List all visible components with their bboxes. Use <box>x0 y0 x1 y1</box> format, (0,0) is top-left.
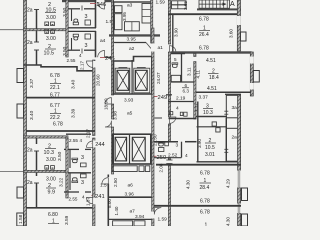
wall top outer <box>62 0 96 2</box>
threshold line corridor y=118 <box>155 117 163 119</box>
svg-text:1: 1 <box>205 223 208 227</box>
svg-text:3.40: 3.40 <box>71 79 77 89</box>
door arc a6 <box>102 178 108 184</box>
red apt number 241 <box>92 195 96 197</box>
svg-text:10.3: 10.3 <box>203 110 213 116</box>
svg-text:3.00: 3.00 <box>46 157 56 163</box>
svg-text:4.30: 4.30 <box>186 180 191 189</box>
svg-text:3.37: 3.37 <box>199 95 209 101</box>
svg-text:3: 3 <box>81 180 84 186</box>
svg-text:4: 4 <box>185 153 188 159</box>
red apt number 246 <box>90 3 96 5</box>
svg-text:3.95: 3.95 <box>127 37 137 43</box>
door tick loggia 3a <box>224 110 228 112</box>
toilet 241 <box>73 178 78 181</box>
svg-text:3.11: 3.11 <box>187 67 192 76</box>
svg-text:6.3: 6.3 <box>183 89 190 94</box>
door arc apt245 <box>86 61 92 67</box>
axis line left to wall <box>0 29 24 31</box>
svg-text:6.78: 6.78 <box>199 46 209 52</box>
door gap apt244 entrance in band <box>92 141 96 148</box>
room 10.5 bottom wall <box>197 161 242 163</box>
staircase hatch <box>199 0 230 8</box>
wall mid divider y=171.3 <box>24 170 69 172</box>
wall corridor west x=93.7 upper part <box>93 60 96 136</box>
washbasin 250 <box>159 148 164 152</box>
svg-text:249: 249 <box>158 95 168 101</box>
elevator block lower enclosure <box>113 134 151 164</box>
window gap right mid 2 <box>250 83 254 90</box>
divider between shafts <box>131 60 133 94</box>
svg-text:4.29: 4.29 <box>226 179 231 188</box>
balcony box 3 <box>17 187 24 198</box>
svg-text:6.77: 6.77 <box>50 93 60 99</box>
shaft outer box right <box>134 68 150 93</box>
svg-text:3.01: 3.01 <box>205 152 215 158</box>
door leaf a2 <box>146 43 151 49</box>
pilaster right mid <box>253 71 259 83</box>
wall short y=94.8 <box>166 94 172 96</box>
door arc lobby upper <box>105 98 111 104</box>
svg-text:2.52: 2.52 <box>168 153 178 159</box>
svg-text:3.40: 3.40 <box>29 110 35 120</box>
svg-text:2а: 2а <box>27 40 33 46</box>
bath 250 east wall <box>181 142 183 158</box>
svg-text:26.4: 26.4 <box>199 32 209 38</box>
balcony box 4 <box>17 213 24 226</box>
wall a7 bottom <box>108 218 152 220</box>
elevator shaft 3 X box <box>115 137 127 161</box>
door mark <box>34 182 39 184</box>
svg-text:4: 4 <box>176 106 179 112</box>
wall hall/bath divider <box>64 148 79 150</box>
svg-text:244: 244 <box>95 142 105 148</box>
toilet 249 <box>173 64 178 67</box>
door gap a2 <box>151 44 155 52</box>
balcony box 1 <box>17 69 24 83</box>
svg-text:4: 4 <box>80 138 83 143</box>
svg-text:3.90: 3.90 <box>197 139 202 148</box>
room 22.1 bottom wall <box>26 97 95 99</box>
wall right outer lower x=240 <box>238 95 241 226</box>
storage boxes top <box>172 1 187 5</box>
bottom room 1 top wall <box>26 207 95 209</box>
bath 250 wall across corridor y=141.5 <box>154 141 178 143</box>
facade step wall y=51 <box>171 51 252 53</box>
svg-text:4.51: 4.51 <box>206 58 216 64</box>
svg-text:3.00: 3.00 <box>46 36 56 42</box>
door arc apt245 entrance <box>98 51 105 58</box>
toilet upper <box>73 22 78 25</box>
bathroom 3 lower walls <box>68 30 96 32</box>
svg-text:4.51: 4.51 <box>207 86 217 92</box>
svg-text:3.00: 3.00 <box>46 177 56 183</box>
tall box right <box>142 4 151 24</box>
red apt number 245 <box>100 57 105 59</box>
wall room 28.4 top y=164.5 <box>156 164 241 166</box>
elevator shaft 1 X box <box>117 68 129 91</box>
svg-text:5: 5 <box>174 57 177 62</box>
storage box 2 <box>115 14 123 30</box>
svg-text:3а: 3а <box>232 105 238 111</box>
toilet 244 <box>73 160 78 163</box>
wall below 10.3 y=116.5 <box>196 116 227 118</box>
pilaster right lower 2 <box>242 214 248 226</box>
wall a6/a7 divider <box>108 196 152 198</box>
vent box row upper <box>45 22 49 26</box>
wall horizontal unit divider y=29.6 <box>24 29 69 31</box>
svg-text:а6: а6 <box>128 183 134 189</box>
svg-text:2.50: 2.50 <box>113 178 118 187</box>
svg-text:2а: 2а <box>27 180 33 186</box>
wall below 18.4 y=92 <box>194 91 251 93</box>
pilaster right top <box>241 32 247 41</box>
door arc lobby lower <box>105 121 111 127</box>
room 22.2 bottom wall <box>26 130 95 132</box>
washbasin 241 <box>81 174 87 178</box>
svg-text:8.00: 8.00 <box>107 199 112 208</box>
door gap apt241 entrance <box>92 198 96 205</box>
vent box 1 right <box>212 122 216 126</box>
room 26.4 left wall <box>172 14 174 52</box>
svg-text:3.39: 3.39 <box>71 108 77 118</box>
svg-text:3.37: 3.37 <box>29 78 35 88</box>
svg-text:1.59: 1.59 <box>156 0 166 6</box>
svg-text:2.55: 2.55 <box>69 138 78 143</box>
svg-text:2.17: 2.17 <box>86 129 91 138</box>
svg-text:3.93: 3.93 <box>124 98 134 104</box>
vent box row lower <box>45 30 49 34</box>
bottom boxes row <box>113 221 133 226</box>
wall corridor west lower x=93.7 <box>93 138 96 226</box>
pilaster right lower 1 <box>242 188 248 201</box>
svg-text:18.90: 18.90 <box>103 98 108 110</box>
wall left outer <box>24 0 27 226</box>
wall hall 250 bottom y=118.5 <box>169 118 197 120</box>
wall elevator block west x=112.5 segments <box>111 0 113 95</box>
svg-text:10.5: 10.5 <box>44 51 55 57</box>
svg-text:246: 246 <box>97 2 107 8</box>
svg-text:3: 3 <box>85 14 88 20</box>
shaft outer box left <box>115 68 130 93</box>
svg-text:9.9: 9.9 <box>48 189 56 195</box>
elevator block upper enclosure <box>114 57 152 95</box>
svg-text:22.2: 22.2 <box>50 115 60 121</box>
washbasin upper <box>85 20 90 25</box>
svg-text:2.55: 2.55 <box>69 197 78 202</box>
wall hall bottom y=101.5 <box>169 101 197 103</box>
svg-text:6.78: 6.78 <box>53 122 63 128</box>
svg-text:10.3: 10.3 <box>44 150 55 156</box>
toilet 250 <box>159 143 164 146</box>
door tick loggia 2a <box>224 148 228 150</box>
wall below staircase <box>197 8 241 10</box>
wall interior vertical x=36.5 segments <box>36 138 38 144</box>
svg-text:1.59: 1.59 <box>158 217 168 223</box>
washbasin 244 <box>81 163 87 167</box>
elevator shaft 2 X box <box>135 68 147 91</box>
svg-text:6.80: 6.80 <box>48 212 58 218</box>
wall right outer top x=239 <box>237 0 240 51</box>
svg-text:24.07: 24.07 <box>156 72 161 84</box>
room 2/10.5 top wall <box>197 126 227 128</box>
red apt number 244 <box>92 143 96 145</box>
door gap apt245 entrance <box>92 61 96 68</box>
svg-text:а7: а7 <box>130 209 136 215</box>
divider lower shafts <box>129 135 131 164</box>
bathroom 3 apt241 walls <box>68 172 91 174</box>
svg-text:2.65: 2.65 <box>183 1 188 10</box>
svg-text:6.78: 6.78 <box>200 210 210 216</box>
machine room bottom wall <box>109 34 160 36</box>
washing box 250 <box>165 142 169 146</box>
bathroom 3 upper walls <box>68 8 80 10</box>
vent boxes <box>45 166 49 170</box>
svg-text:3.98: 3.98 <box>113 111 118 120</box>
bath block wall x=67 lower <box>66 138 68 198</box>
room 26.4 top wall <box>168 13 240 15</box>
svg-text:3: 3 <box>176 143 179 149</box>
window gap right top <box>237 16 241 25</box>
vent boxes hall 250 <box>170 112 173 115</box>
svg-text:4.30: 4.30 <box>226 217 231 226</box>
door gap apt244 entrance <box>92 141 96 148</box>
svg-text:2.19: 2.19 <box>176 96 186 102</box>
corridor wall y=42 <box>114 42 147 44</box>
svg-text:2.55: 2.55 <box>67 58 76 63</box>
svg-text:а1: а1 <box>158 45 164 51</box>
wall bath block west x=67 <box>66 0 68 57</box>
svg-text:3: 3 <box>85 43 88 49</box>
red apt number 250 <box>154 155 157 157</box>
svg-text:а5: а5 <box>127 111 133 117</box>
wall top of hall 4 <box>66 133 91 135</box>
machine room box top <box>114 2 152 36</box>
svg-text:а2: а2 <box>129 46 135 52</box>
toilet lower <box>73 34 78 37</box>
svg-text:3.50: 3.50 <box>57 151 63 161</box>
svg-text:а4: а4 <box>100 38 106 44</box>
door mark low <box>34 49 39 51</box>
wall right outer mid x=252 <box>250 52 253 96</box>
elevator shaft 4 X box <box>132 137 145 161</box>
svg-text:241: 241 <box>95 194 105 200</box>
svg-text:18.4: 18.4 <box>209 75 219 81</box>
svg-text:3.22: 3.22 <box>59 177 65 187</box>
balcony box 2 <box>17 104 24 118</box>
stair arrow <box>199 3 226 5</box>
boxes bottom of machine room <box>125 22 140 31</box>
wall interior vertical x=36.5 segments <box>36 10 38 30</box>
bath 250 bottom wall <box>154 157 182 159</box>
svg-text:1.58: 1.58 <box>18 214 24 224</box>
window gap right mid 1 <box>250 57 254 64</box>
axis line left <box>0 170 24 172</box>
vent box 2 right <box>216 128 220 132</box>
svg-text:3.21: 3.21 <box>195 103 200 112</box>
window gap bottom room east <box>237 204 241 214</box>
svg-text:А: А <box>230 1 235 8</box>
bath 244 west wall <box>69 150 71 168</box>
red apt number 249 <box>154 96 158 98</box>
bathtub 249 <box>171 75 180 81</box>
door mark top <box>34 9 39 11</box>
svg-text:3.60: 3.60 <box>229 29 234 38</box>
wall corridor east x=169.5 segments <box>168 0 170 44</box>
door arc apt246 entrance <box>98 2 105 9</box>
door arc corridor bottom <box>154 208 161 215</box>
svg-text:22.1: 22.1 <box>50 85 60 91</box>
svg-text:6.78: 6.78 <box>200 199 210 205</box>
svg-text:1.40: 1.40 <box>114 206 119 215</box>
wall horizontal top of unit <box>24 136 69 138</box>
svg-text:3: 3 <box>81 155 84 161</box>
svg-text:2а: 2а <box>27 148 33 154</box>
door mark mid <box>34 41 39 43</box>
svg-text:3.95: 3.95 <box>122 12 127 21</box>
window gap 28.4 east <box>237 171 241 188</box>
wall 3a top y=94 <box>225 93 241 95</box>
door gap a7 <box>151 212 155 219</box>
svg-text:20.60: 20.60 <box>96 74 101 86</box>
svg-text:3.90: 3.90 <box>174 28 179 37</box>
svg-text:10.5: 10.5 <box>205 145 215 151</box>
svg-text:2.08: 2.08 <box>159 163 164 172</box>
wall corridor west x=152.8 <box>151 0 153 43</box>
svg-text:а3: а3 <box>127 3 133 9</box>
wall top of room 22.1 with jog and notch <box>24 65 93 71</box>
wall room 28.4 bottom y=205.5 <box>154 205 241 207</box>
loggia box right 3a/2a <box>226 95 240 161</box>
svg-text:6: 6 <box>185 83 188 88</box>
room 2/10.5 side walls <box>197 102 199 162</box>
svg-text:4: 4 <box>79 53 82 58</box>
door mark <box>34 150 39 152</box>
storage box 1 <box>115 6 123 13</box>
svg-text:6.78: 6.78 <box>200 171 210 177</box>
washbasin lower <box>85 34 90 39</box>
svg-text:2а: 2а <box>27 8 33 14</box>
door arc a1 <box>170 46 176 52</box>
svg-text:3.00: 3.00 <box>46 15 56 21</box>
svg-text:28.4: 28.4 <box>200 185 210 191</box>
wall a6 west x=108.3 <box>107 175 109 178</box>
door arc apt241 <box>87 198 93 204</box>
wall thick divider x=195 <box>194 54 196 57</box>
svg-text:6.78: 6.78 <box>199 17 209 23</box>
svg-text:3.59: 3.59 <box>64 215 70 225</box>
bath 249 top walls <box>171 53 185 55</box>
door arc apt250 <box>170 117 176 123</box>
svg-text:2.17: 2.17 <box>80 61 85 70</box>
svg-text:2а: 2а <box>232 135 238 141</box>
door arc apt244 <box>87 141 93 147</box>
mailbox row below elevators <box>112 166 137 172</box>
